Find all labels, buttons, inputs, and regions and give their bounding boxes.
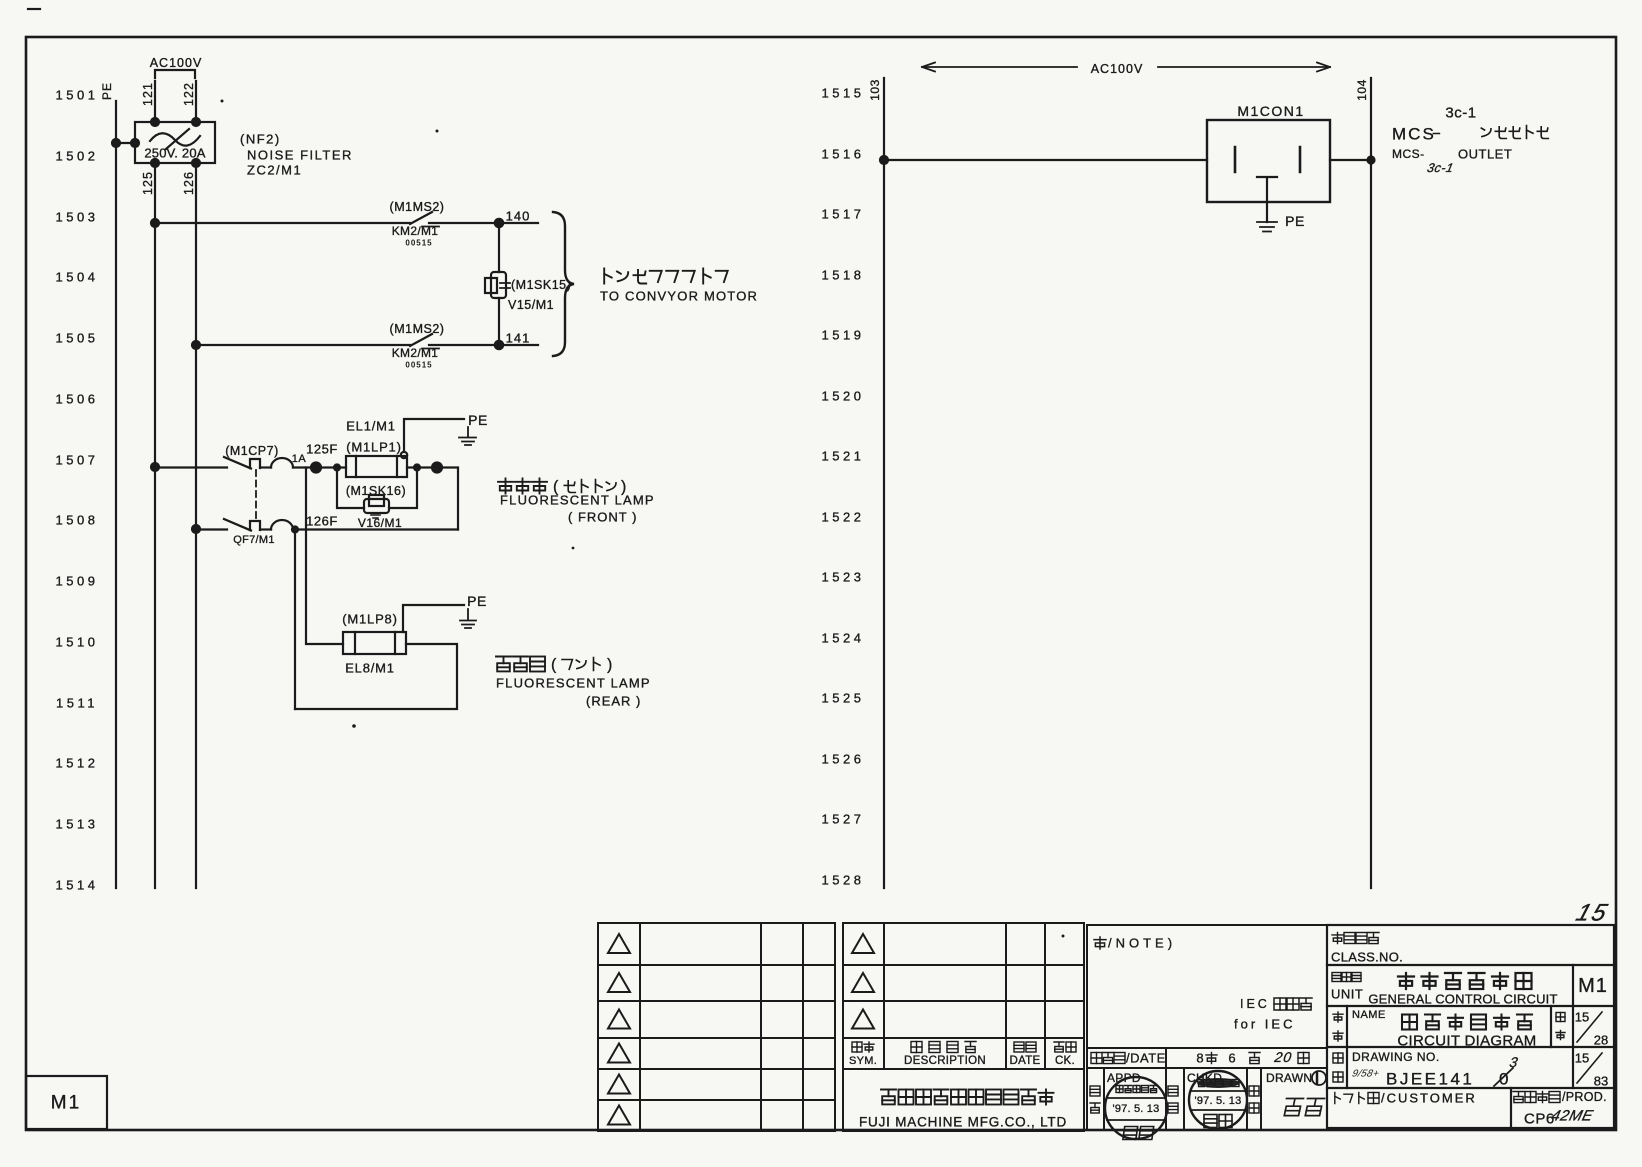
revision table (right) [843, 923, 1084, 1131]
svg-text:103: 103 [868, 79, 882, 101]
svg-text:00515: 00515 [405, 361, 432, 370]
svg-text:1509: 1509 [56, 574, 99, 589]
svg-text:UNIT: UNIT [1331, 987, 1363, 1002]
fluorescent lamp EL1/M1 (M1LP1) [346, 419, 407, 478]
svg-text:( FRONT ): ( FRONT ) [568, 510, 637, 525]
revision triangle R2 [852, 973, 874, 992]
svg-text:V15/M1: V15/M1 [508, 298, 554, 312]
revision triangle R1 [852, 934, 874, 953]
svg-text:1510: 1510 [56, 635, 99, 650]
approval stamp 2 [1189, 1071, 1247, 1129]
svg-text:SYM.: SYM. [849, 1055, 877, 1067]
svg-text:1517: 1517 [822, 207, 865, 222]
svg-text:(M1LP8): (M1LP8) [342, 612, 397, 627]
svg-text:1515: 1515 [822, 86, 865, 101]
revision triangle L3 [608, 1010, 630, 1029]
svg-text:MCS-: MCS- [1392, 147, 1425, 161]
svg-text:for IEC: for IEC [1234, 1017, 1295, 1032]
PE ground (EL1) [404, 412, 488, 452]
svg-text:1511: 1511 [56, 696, 98, 711]
svg-text:1512: 1512 [56, 756, 99, 771]
svg-text:/CUSTOMER: /CUSTOMER [1381, 1091, 1477, 1106]
svg-text:1520: 1520 [822, 389, 865, 404]
revision triangle L6 [608, 1106, 630, 1125]
svg-text:M1CON1: M1CON1 [1237, 103, 1304, 119]
svg-text:FLUORESCENT LAMP: FLUORESCENT LAMP [500, 493, 655, 508]
svg-text:FUJI MACHINE MFG.CO., LTD: FUJI MACHINE MFG.CO., LTD [859, 1115, 1067, 1130]
svg-text:15: 15 [1575, 1010, 1589, 1025]
svg-text:(M1CP7): (M1CP7) [225, 444, 279, 458]
svg-text:(REAR ): (REAR ) [586, 694, 641, 709]
wire 121 [141, 81, 155, 122]
wire 126F feeder to bottom loop [294, 530, 296, 710]
svg-text:1516: 1516 [822, 147, 865, 162]
breaker linkage (dashed) [255, 470, 257, 520]
svg-text:NAME: NAME [1352, 1009, 1386, 1021]
svg-text:PE: PE [100, 82, 114, 100]
svg-text:1503: 1503 [56, 210, 99, 225]
svg-text:NOISE FILTER: NOISE FILTER [247, 148, 353, 163]
svg-text:1506: 1506 [56, 392, 99, 407]
svg-text:CIRCUIT DIAGRAM: CIRCUIT DIAGRAM [1397, 1033, 1536, 1050]
svg-text:): ) [607, 657, 612, 674]
svg-text:CLASS.NO.: CLASS.NO. [1331, 950, 1403, 965]
svg-text:20: 20 [1273, 1049, 1294, 1065]
svg-text:(M1SK15): (M1SK15) [511, 278, 571, 292]
svg-text:FLUORESCENT LAMP: FLUORESCENT LAMP [496, 676, 651, 691]
note box [1087, 925, 1327, 1130]
svg-text:AC100V: AC100V [1091, 62, 1144, 76]
svg-text:1507: 1507 [56, 453, 99, 468]
node 126F [292, 514, 338, 533]
svg-text:M1: M1 [51, 1093, 81, 1114]
wire PE bus to NF2 [112, 139, 139, 147]
scan specks [221, 100, 1065, 938]
svg-text:141: 141 [506, 331, 531, 346]
svg-text:126F: 126F [306, 514, 338, 529]
svg-text:GENERAL CONTROL CIRCUIT: GENERAL CONTROL CIRCUIT [1368, 992, 1557, 1007]
wire row 1505 (126 to node 141) [196, 344, 538, 346]
title block frame [1327, 925, 1614, 1128]
svg-text:CK.: CK. [1055, 1055, 1075, 1067]
svg-text:15: 15 [1575, 1051, 1589, 1066]
varistor M1SK15 V15/M1 [485, 223, 571, 345]
revision table (left) [598, 923, 835, 1131]
date row [1087, 1048, 1327, 1130]
svg-text:1A: 1A [292, 453, 307, 465]
connector M1CON1 [1207, 103, 1330, 202]
svg-text:EL8/M1: EL8/M1 [345, 661, 395, 676]
svg-text:1523: 1523 [822, 570, 865, 585]
svg-text:1528: 1528 [822, 873, 865, 888]
svg-text:(M1LP1): (M1LP1) [346, 440, 401, 455]
revision triangle L1 [608, 934, 630, 953]
circuit breaker QF7/M1 pole 2 [196, 519, 458, 546]
handwritten page 15 [1573, 900, 1612, 926]
svg-text:/NOTE): /NOTE) [1108, 936, 1176, 951]
class no cell [1331, 933, 1403, 965]
svg-text:3c-1: 3c-1 [1445, 105, 1476, 122]
approval cells [1104, 1068, 1261, 1130]
svg-text:·: · [1239, 1112, 1242, 1122]
svg-text:'97. 5. 13: '97. 5. 13 [1113, 1103, 1160, 1115]
svg-text:1524: 1524 [822, 631, 865, 646]
svg-text:1519: 1519 [822, 328, 865, 343]
svg-text:DESCRIPTION: DESCRIPTION [904, 1055, 986, 1067]
svg-text:1518: 1518 [822, 268, 865, 283]
svg-text:DATE: DATE [1009, 1055, 1040, 1067]
unit cell: general control circuit [1331, 973, 1608, 1007]
label to conveyor motor [600, 269, 758, 304]
svg-text:1527: 1527 [822, 812, 865, 827]
wire row 1503 (125 to node 140) [155, 222, 538, 224]
PE ground (EL8) [403, 593, 487, 632]
svg-text:PE: PE [468, 412, 488, 428]
wire 122 [182, 81, 196, 122]
sheet code M1 box [26, 1076, 107, 1129]
drawing no cell [1333, 1050, 1608, 1089]
fluorescent lamp EL8/M1 (M1LP8) [342, 612, 406, 676]
wire 125F feeder to EL8 [306, 468, 343, 645]
contact KM2/M1 (M1MS2) lower [390, 322, 445, 370]
svg-text:(NF2): (NF2) [240, 132, 281, 147]
node 140 [495, 209, 531, 228]
svg-text:9/58+: 9/58+ [1351, 1069, 1380, 1080]
svg-text:104: 104 [1355, 79, 1369, 101]
bus 103 [868, 78, 884, 888]
svg-text:28: 28 [1594, 1033, 1608, 1048]
svg-text:(M1MS2): (M1MS2) [390, 322, 445, 336]
svg-text:122: 122 [182, 82, 196, 106]
contact KM2/M1 (M1MS2) upper [390, 200, 445, 248]
node 125F [306, 442, 340, 473]
name cell: circuit diagram [1333, 1009, 1608, 1050]
svg-text:IEC: IEC [1240, 997, 1270, 1011]
svg-text:83: 83 [1594, 1074, 1608, 1089]
svg-text:1504: 1504 [56, 270, 99, 285]
svg-text:1521: 1521 [822, 449, 865, 464]
svg-text:M1: M1 [1578, 975, 1608, 997]
svg-text:1513: 1513 [56, 817, 99, 832]
svg-text:PE: PE [1285, 213, 1305, 229]
drawn signature [1283, 1099, 1325, 1116]
label fluorescent lamp (front) [498, 479, 655, 525]
AC100V dimension arrow [922, 62, 1330, 76]
svg-text:QF7/M1: QF7/M1 [233, 534, 275, 546]
wire row 1516 [880, 156, 1375, 164]
brace (to conveyor motor) [553, 212, 574, 356]
svg-text:TO CONVYOR MOTOR: TO CONVYOR MOTOR [600, 289, 758, 304]
svg-text:125F: 125F [306, 442, 338, 457]
svg-text:ZC2/M1: ZC2/M1 [247, 163, 302, 178]
bus 104 [1355, 78, 1371, 888]
svg-text:1502: 1502 [56, 149, 99, 164]
svg-text:V16/M1: V16/M1 [358, 516, 402, 530]
svg-text:1501: 1501 [56, 88, 99, 103]
svg-text:PE: PE [467, 593, 487, 609]
svg-text:AC100V: AC100V [150, 56, 203, 70]
svg-text:1505: 1505 [56, 331, 99, 346]
svg-text:MCS: MCS [1392, 125, 1436, 144]
PE bus [100, 82, 116, 888]
left line numbers 1501-1514 [56, 88, 99, 893]
svg-text:1522: 1522 [822, 510, 865, 525]
svg-text:'97. 5. 13: '97. 5. 13 [1195, 1095, 1242, 1107]
svg-text:121: 121 [141, 82, 155, 106]
noise filter NF2 250V 20A [135, 118, 215, 167]
svg-text:00515: 00515 [405, 239, 432, 248]
wire 126 [182, 163, 200, 888]
svg-text:OUTLET: OUTLET [1458, 147, 1512, 162]
note text [1094, 936, 1312, 1032]
net label AC100V [150, 56, 203, 78]
svg-text:140: 140 [506, 209, 531, 224]
svg-text:EL1/M1: EL1/M1 [346, 419, 396, 434]
circuit breaker QF7/M1 (M1CP7) pole 1 [155, 444, 346, 469]
svg-text:/DATE: /DATE [1126, 1051, 1166, 1066]
svg-text:1508: 1508 [56, 513, 99, 528]
label MCS outlet 3c-1 [1392, 105, 1548, 175]
svg-text:DRAWN: DRAWN [1266, 1071, 1312, 1085]
wire 125 [141, 163, 159, 888]
svg-text:(: ( [551, 657, 557, 674]
customer cell [1335, 1090, 1607, 1128]
NF2 label text [240, 132, 353, 178]
svg-text:8: 8 [1196, 1051, 1203, 1066]
svg-text:6: 6 [1228, 1051, 1235, 1066]
label fluorescent lamp (rear) [496, 657, 651, 709]
svg-text:1526: 1526 [822, 752, 865, 767]
approval stamp 1 [1105, 1077, 1167, 1140]
wire EL1 output to corner [407, 463, 458, 530]
revision table header SYM/DESCRIPTION/DATE/CK [849, 1042, 1076, 1068]
PE ground (M1CON1) [1257, 177, 1305, 232]
svg-text:(M1MS2): (M1MS2) [390, 200, 445, 214]
wire EL8 output loop [295, 644, 457, 709]
svg-text:42ME: 42ME [1550, 1108, 1596, 1125]
svg-text:125: 125 [141, 171, 155, 195]
svg-text:1514: 1514 [56, 878, 99, 893]
svg-text:DRAWING NO.: DRAWING NO. [1352, 1050, 1440, 1064]
svg-text:3c-1: 3c-1 [1426, 161, 1455, 175]
svg-text:−: − [1432, 126, 1441, 143]
svg-text:/PROD.: /PROD. [1562, 1090, 1607, 1104]
revision triangle R3 [852, 1010, 874, 1029]
varistor M1SK16 V16/M1 [337, 468, 417, 531]
revision triangle L5 [608, 1075, 630, 1094]
svg-text:126: 126 [182, 171, 196, 195]
node 141 [495, 331, 531, 350]
svg-text:1525: 1525 [822, 691, 865, 706]
company name FUJI MACHINE [859, 1090, 1067, 1130]
right line numbers 1515-1528 [822, 86, 865, 888]
revision triangle L2 [608, 973, 630, 992]
svg-text:BJEE141: BJEE141 [1386, 1070, 1474, 1089]
revision triangle L4 [608, 1044, 630, 1063]
